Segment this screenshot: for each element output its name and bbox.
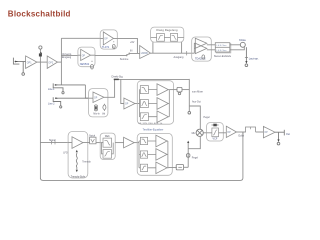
wire U8 to V7 bbox=[115, 142, 123, 144]
svg-text:zum Mixer: zum Mixer bbox=[192, 91, 203, 94]
filter F5 square bbox=[140, 113, 148, 121]
svg-text:Line 1: Line 1 bbox=[48, 88, 55, 91]
svg-text:LS 8 Ohm: LS 8 Ohm bbox=[217, 45, 227, 47]
svg-text:IN: IN bbox=[130, 49, 133, 52]
wire connector down to speaker bbox=[245, 47, 248, 66]
microphone jack J1 bbox=[13, 58, 25, 76]
aux riser bbox=[188, 79, 191, 114]
wire V2 to riser bbox=[58, 61, 62, 63]
svg-text:63 125 250 500 1k: 63 125 250 500 1k bbox=[138, 123, 163, 125]
connector tick on wire bbox=[186, 51, 188, 55]
switch box S1 bbox=[246, 127, 256, 132]
labels U4 bbox=[93, 113, 105, 115]
filter F1 square bbox=[157, 34, 165, 42]
svg-text:Ausgang: Ausgang bbox=[174, 56, 184, 59]
filter F11 square bbox=[140, 151, 147, 158]
line-in jack J2 bbox=[53, 83, 85, 93]
wire drop to V4 bbox=[121, 79, 124, 103]
wires through U6 bbox=[207, 132, 227, 134]
filter F12 square bbox=[140, 164, 147, 171]
svg-text:Laut-spr.: Laut-spr. bbox=[249, 57, 259, 60]
U8 bypass loop bbox=[102, 143, 114, 154]
filter F4 square bbox=[140, 100, 148, 108]
line-in jack J3 bbox=[53, 97, 88, 108]
wire V7 to bank U9 bbox=[134, 142, 139, 144]
tremolo block U7 bbox=[68, 132, 88, 179]
U5 input bus bbox=[138, 90, 141, 117]
trimmer icon U2 bbox=[91, 61, 94, 69]
wire feedback bottom run bbox=[40, 132, 243, 180]
wire U9 out bbox=[168, 166, 177, 168]
svg-text:+9V: +9V bbox=[130, 41, 135, 44]
svg-text:Klinke: Klinke bbox=[239, 39, 246, 42]
op-amp U3a bbox=[195, 38, 207, 48]
svg-text:VCF: VCF bbox=[213, 138, 218, 141]
filter bank block U5 bbox=[137, 81, 173, 125]
svg-text:OP: OP bbox=[227, 132, 231, 134]
capacitor icon U4 bbox=[94, 105, 97, 111]
send line bbox=[114, 78, 190, 80]
svg-text:Vol: Vol bbox=[102, 113, 106, 115]
wire V5 to switch bbox=[237, 131, 246, 133]
op-amp V1 bbox=[26, 56, 37, 69]
svg-text:NE5532: NE5532 bbox=[80, 62, 90, 66]
pedal block U8 bbox=[100, 133, 115, 159]
op-amp U9c bbox=[156, 162, 167, 174]
op-amp V6 bbox=[263, 126, 275, 137]
wire into block U2 bbox=[61, 54, 78, 56]
mixer amp block U4 bbox=[89, 89, 108, 117]
label Vorverstaerker bbox=[62, 53, 72, 59]
op-amp U5c bbox=[157, 111, 168, 123]
wire P3 to riser bbox=[183, 166, 188, 168]
svg-text:Pegel: Pegel bbox=[192, 156, 199, 159]
svg-text:Echo: Echo bbox=[239, 135, 245, 138]
wire V3 to power block bbox=[151, 52, 195, 54]
svg-text:Tremolo: Tremolo bbox=[82, 160, 91, 163]
wires U3 outputs bbox=[207, 45, 216, 50]
filter F10 square bbox=[140, 137, 147, 144]
trimmer icon U4 bbox=[103, 104, 106, 111]
wire F7 to U8 bbox=[96, 142, 103, 144]
wire V4 to bank bbox=[135, 103, 139, 105]
op-amp U7a bbox=[68, 137, 90, 149]
svg-text:OP1: OP1 bbox=[27, 61, 32, 64]
trim node on riser bbox=[187, 154, 190, 158]
filter F6 square bbox=[212, 128, 219, 137]
power amp V3 bbox=[140, 46, 151, 59]
filter F9 square bbox=[103, 150, 112, 159]
wire riser to preamp block bbox=[61, 37, 100, 39]
wire node riser x61 bbox=[60, 38, 62, 85]
op-amp U9a bbox=[156, 135, 167, 147]
svg-text:Eingang: Eingang bbox=[62, 56, 72, 59]
wire U5 out bbox=[169, 89, 177, 91]
svg-text:Signal: Signal bbox=[49, 139, 56, 142]
mixer M1 bbox=[196, 129, 203, 136]
connector circle output bbox=[240, 42, 245, 47]
wire mic bus vertical P1 down bbox=[39, 49, 41, 179]
VCF block U6 bbox=[207, 123, 224, 141]
svg-text:Summe: Summe bbox=[120, 58, 129, 61]
svg-text:TL071: TL071 bbox=[102, 45, 110, 49]
wire J2 corner down bbox=[85, 85, 88, 98]
svg-text:Direkt-Sig.: Direkt-Sig. bbox=[112, 75, 124, 78]
op-amp V4 bbox=[124, 98, 135, 109]
output jack J4 bbox=[275, 130, 284, 145]
svg-text:Terzfilter-Equalizer: Terzfilter-Equalizer bbox=[143, 129, 164, 132]
svg-text:Line 2: Line 2 bbox=[48, 102, 55, 105]
tone control block (Klangregelung) bbox=[151, 27, 184, 42]
svg-text:Tremolo-Stufe: Tremolo-Stufe bbox=[71, 175, 86, 178]
svg-text:Stereo-Endstufe: Stereo-Endstufe bbox=[214, 55, 232, 58]
potentiometer P2 bbox=[177, 87, 182, 94]
trimmer icon U1 bbox=[112, 41, 115, 48]
op-amp V5 bbox=[226, 126, 236, 137]
op-amp V7 bbox=[124, 137, 135, 148]
op-amp V2 bbox=[47, 56, 57, 69]
op-amp U3b bbox=[195, 43, 207, 53]
op-amp U2a bbox=[78, 49, 95, 60]
svg-text:Mix-In: Mix-In bbox=[93, 113, 100, 115]
U5 output bus bbox=[168, 90, 169, 117]
wire S1 to V6 bbox=[256, 131, 264, 133]
svg-text:OP: OP bbox=[94, 97, 98, 99]
U9 input bus bbox=[139, 141, 140, 168]
wires box to connector bbox=[230, 45, 245, 50]
wire U2 to V3 with pad bbox=[95, 52, 140, 56]
wire V1 to V2 bbox=[37, 61, 47, 63]
wire mixer to U6 bbox=[203, 132, 206, 134]
svg-text:OP: OP bbox=[104, 39, 108, 41]
wire U4 out riser to send line bbox=[108, 79, 115, 97]
svg-text:LM386: LM386 bbox=[141, 53, 149, 55]
U9 middle wires bbox=[148, 141, 156, 168]
op-amp U5b bbox=[157, 98, 168, 110]
svg-text:OP2: OP2 bbox=[48, 61, 53, 64]
LFO squiggle U7 bbox=[76, 150, 78, 173]
svg-text:LFO: LFO bbox=[63, 153, 68, 155]
filter F2 square bbox=[170, 34, 177, 42]
mic preamp block U1 bbox=[100, 30, 117, 49]
notch box F7 bbox=[90, 137, 96, 144]
op-amp U1a bbox=[100, 32, 117, 45]
potentiometer P1 bbox=[39, 46, 42, 57]
U5 middle wires bbox=[148, 90, 157, 117]
svg-text:LS 8 Ohm: LS 8 Ohm bbox=[217, 50, 227, 52]
power amp block U3 bbox=[192, 37, 212, 61]
svg-text:OP: OP bbox=[82, 55, 86, 57]
svg-text:Aux-Out: Aux-Out bbox=[192, 100, 201, 103]
filter F8 square bbox=[103, 138, 112, 147]
wire U1 out and riser down bbox=[117, 38, 137, 53]
power block input bus bbox=[194, 43, 195, 53]
svg-text:Out: Out bbox=[286, 133, 290, 136]
wire P2 to riser bbox=[182, 89, 189, 91]
output level box pair bbox=[215, 43, 231, 53]
op-amp U5a bbox=[157, 84, 168, 96]
op-amp U4a bbox=[89, 92, 108, 103]
feedback tap wire bbox=[242, 132, 244, 136]
return riser bbox=[187, 141, 189, 168]
bottom chain wire from bus bbox=[40, 141, 68, 145]
svg-text:Blockschaltbild: Blockschaltbild bbox=[8, 10, 71, 19]
trimmer icon U3 bbox=[202, 55, 205, 59]
pot dark U6 bbox=[212, 124, 219, 127]
svg-text:Klang Regelung: Klang Regelung bbox=[156, 28, 178, 32]
U9 output bus bbox=[166, 141, 169, 168]
wire link riser to mixer bottom bbox=[188, 136, 200, 148]
filter bank block U9 bbox=[137, 133, 172, 175]
tone block stubs bbox=[153, 42, 182, 53]
op-amp U9b bbox=[156, 149, 167, 161]
filter F3 square bbox=[140, 86, 148, 94]
wire branch to mixer top bbox=[189, 106, 200, 129]
potentiometer P3 bbox=[176, 165, 183, 170]
svg-text:OP: OP bbox=[125, 104, 129, 106]
tone block internal wires bbox=[151, 36, 184, 38]
svg-text:Notch: Notch bbox=[89, 134, 96, 137]
svg-text:Pegel: Pegel bbox=[204, 116, 211, 119]
amp block U2 bbox=[78, 47, 95, 67]
svg-text:OP: OP bbox=[264, 132, 268, 134]
